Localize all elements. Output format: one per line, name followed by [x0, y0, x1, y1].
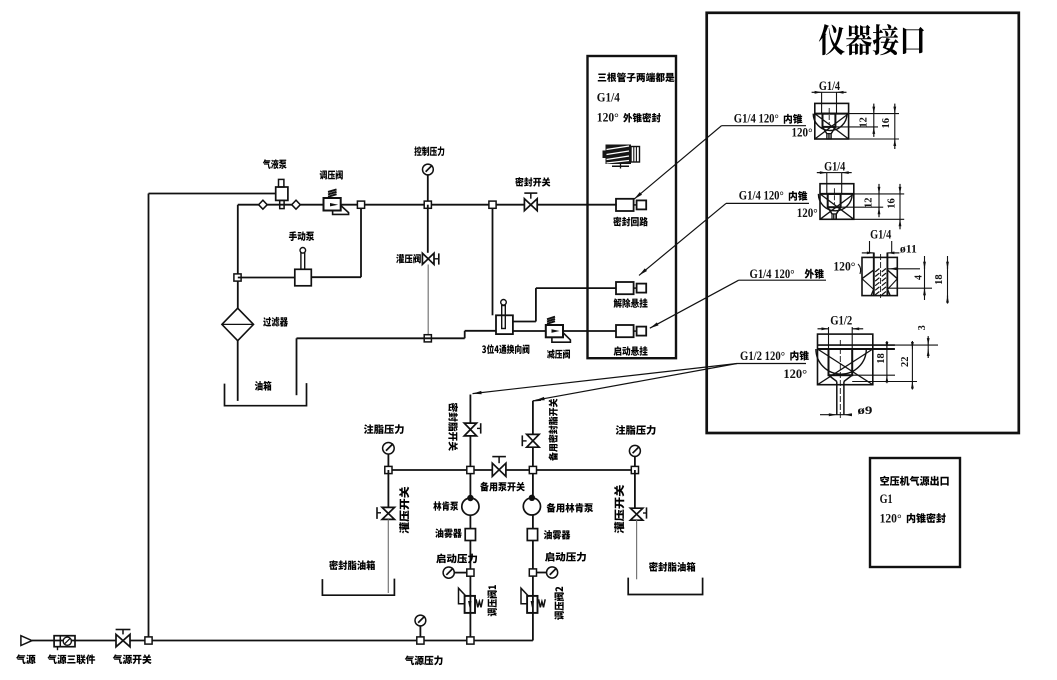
wire: gauge R stub: [537, 572, 547, 574]
label 密封脂开关 (vertical): [448, 403, 458, 451]
label 备用密封脂开关 (vertical): [548, 399, 557, 461]
valve 气源开关: [116, 634, 130, 646]
detail drawing 2: G1/4 female cone section: [820, 184, 854, 220]
bar 密封脂开关: [480, 423, 482, 433]
stem 灌压开关 R: [643, 512, 647, 514]
label 气源三联件: [47, 654, 95, 664]
wire: valve output B: [513, 330, 546, 332]
svg-text:120°: 120°: [783, 367, 807, 381]
bar 气源开关: [116, 629, 131, 631]
label 调压阀1 (vertical): [487, 585, 497, 616]
valve 调压阀1 (air regulator 1): [465, 596, 475, 613]
node line1 header: [467, 466, 474, 473]
plate top: [818, 344, 895, 346]
box: 三根管子 note frame: [588, 56, 677, 358]
centerline drawing 4: [839, 340, 841, 418]
wire: supply line to air-liquid pump: [149, 193, 277, 195]
seal switch handle bar: [524, 192, 537, 194]
bar 备用密封脂开关: [521, 435, 523, 446]
FRL unit 气源三联件: [54, 636, 75, 647]
node: line1 bottom tee: [467, 637, 474, 644]
connector 密封回路 port: [616, 199, 634, 211]
svg-text:120°: 120°: [880, 510, 902, 525]
label 气源压力: [405, 655, 443, 665]
wire: down to relief valve: [427, 205, 429, 253]
svg-text:G1/4 120°: G1/4 120°: [739, 189, 784, 203]
valve 备用泵开关: [492, 463, 506, 476]
relief valve stem: [434, 258, 439, 260]
plug wall right: [886, 253, 888, 296]
detail drawing 1: G1/4 female cone section: [815, 103, 849, 139]
label 手动泵: [289, 231, 314, 241]
pump 气液泵 (air-liquid pump): [276, 187, 288, 200]
tank 密封脂油箱 (left): [322, 579, 394, 596]
svg-text:ø9: ø9: [857, 403, 872, 417]
underline 1: [722, 125, 807, 127]
thread hatch in plug: [875, 269, 879, 272]
text 外锥密封: [623, 113, 661, 123]
underline 2: [726, 202, 809, 204]
node: pilot tee on main line: [489, 201, 496, 208]
gauge 启动压力 L: [443, 567, 454, 578]
wire: up to main line: [360, 205, 362, 278]
pump 备用林肯泵: [523, 498, 540, 515]
wire: up: [535, 288, 537, 321]
label 林肯泵: [433, 501, 458, 511]
wire: stem to control pressure gauge: [427, 175, 429, 205]
label 密封脂油箱 L: [329, 560, 375, 570]
wire: suction line: [297, 337, 465, 339]
svg-text:12: 12: [864, 197, 875, 208]
leader to 密封回路: [634, 126, 722, 200]
valve 备用密封脂开关: [527, 434, 539, 447]
underline 3: [739, 279, 826, 281]
svg-text:22: 22: [900, 357, 911, 368]
stem 备用泵开关: [498, 457, 500, 464]
svg-text:G1: G1: [880, 491, 893, 506]
detail drawing 4: G1/2 female cone section: [818, 334, 873, 385]
text 内锥密封: [907, 513, 946, 523]
svg-text:120°: 120°: [597, 109, 619, 124]
wire: left main vertical air line: [148, 194, 150, 641]
wire: to release-suspension port: [536, 287, 616, 289]
label 密封回路: [613, 217, 648, 227]
gauge 启动压力 R: [547, 567, 558, 578]
label 灌压开关 L (vertical): [399, 487, 409, 534]
label 气液泵: [263, 159, 287, 169]
X diag 4b: [818, 349, 873, 385]
node: air riser tee: [145, 637, 152, 644]
svg-text:G1/2: G1/2: [830, 314, 852, 328]
oiler 油雾器 (right): [527, 529, 537, 541]
stub hole right: [843, 382, 845, 415]
connector 解除悬挂 port: [616, 282, 634, 294]
node 启动压力 R: [529, 569, 536, 576]
wire: left gauge stem: [387, 454, 389, 466]
stem 密封脂开关: [477, 427, 481, 429]
title 仪器接口: [819, 24, 924, 55]
label 灌压阀: [396, 254, 421, 263]
check valve diamond 2: [292, 200, 301, 209]
label 调压阀2 (vertical): [554, 587, 564, 620]
label 调压阀: [320, 170, 343, 179]
svg-text:12: 12: [859, 117, 870, 128]
svg-text:120°: 120°: [792, 126, 813, 140]
label 油雾器 R: [544, 530, 571, 540]
label 备用林肯泵: [546, 503, 593, 513]
underline 4: [737, 363, 806, 365]
svg-text:G1/4: G1/4: [597, 90, 620, 105]
filter midline: [223, 323, 254, 325]
label 解除悬挂: [614, 298, 648, 308]
svg-text:G1/4: G1/4: [870, 228, 892, 242]
valve 灌压开关 (left): [382, 507, 394, 519]
wire: branch down to manual pump / filter: [237, 205, 239, 309]
wire: pump outlet line: [238, 204, 324, 206]
connector 启动悬挂 port: [616, 325, 634, 337]
drain flag of 减压阀: [552, 333, 571, 342]
wire: main control line to seal circuit: [341, 204, 617, 206]
wire: bottom air supply line: [32, 640, 533, 642]
wire: suction dip into tank: [296, 338, 298, 395]
label 控制压力: [414, 146, 444, 156]
gauge 控制压力: [423, 164, 434, 175]
wire: gauge L stub: [454, 572, 467, 574]
wire: into left grease tank (thin): [387, 519, 389, 593]
node line2 header: [529, 466, 536, 473]
label 灌压开关 R (vertical): [614, 485, 624, 534]
pump 手动泵 (hand pump): [295, 269, 312, 286]
wire: pilot line down to directional valve: [492, 205, 494, 316]
label 密封脂油箱 R: [649, 562, 695, 572]
detail drawing 3: G1/4 male cone section: [862, 257, 897, 295]
label 注脂压力 (right): [616, 425, 656, 435]
wire: suction step up: [464, 331, 466, 339]
gauge 注脂压力 (left): [383, 443, 395, 455]
svg-text:120°: 120°: [833, 260, 855, 274]
inner hex/nut: [829, 349, 853, 375]
wire: air gauge stem: [419, 626, 421, 637]
bar 灌压开关 L: [376, 507, 378, 519]
gauge 注脂压力 (right): [629, 445, 640, 456]
spring of 减压阀: [547, 317, 555, 324]
gauge 气源压力: [415, 615, 426, 626]
wire: filter suction into oil tank: [237, 341, 239, 401]
valve 3位4通换向阀 (3-pos 4-way directional valve): [496, 315, 513, 334]
svg-text:G1/4: G1/4: [824, 159, 846, 173]
leader to 解除悬挂: [639, 203, 726, 275]
label 油箱: [255, 381, 272, 391]
text 三根管子两端都是: [598, 72, 675, 82]
wire: to manual pump: [238, 277, 295, 279]
X diag 4a: [818, 349, 873, 385]
stem 灌压开关 L: [377, 512, 381, 514]
leader to seal grease line 1: [473, 364, 738, 394]
valve 密封开关 (seal switch): [524, 199, 537, 211]
svg-text:4: 4: [914, 275, 925, 280]
relief valve end bar: [438, 253, 440, 264]
valve 减压阀 (pressure reducing valve): [546, 325, 563, 337]
cone V of drawing 4: [829, 375, 853, 381]
svg-text:G1/4 120°: G1/4 120°: [750, 267, 795, 281]
label 油雾器 L: [435, 528, 462, 538]
box: 空压机气源出口 note: [870, 458, 960, 567]
label 减压阀: [547, 349, 570, 358]
wire: suction into directional valve: [465, 330, 496, 332]
wire: into right grease tank (thin): [636, 520, 638, 579]
tank 油箱: [225, 383, 307, 406]
check valve diamond 1: [259, 200, 268, 209]
stub hole left: [836, 382, 838, 415]
node left header: [385, 466, 392, 473]
seal switch stem: [530, 193, 532, 199]
svg-text:G1/2 120°: G1/2 120°: [740, 349, 785, 363]
filter 过滤器: [222, 308, 254, 341]
bar 灌压开关 R: [646, 507, 648, 518]
arrow inside 调压阀: [330, 203, 338, 206]
wire: grease line 2 (备用 column): [532, 401, 534, 641]
svg-text:18: 18: [934, 274, 945, 285]
pump 林肯泵: [462, 498, 479, 515]
node on suction line: [424, 335, 431, 342]
wire: left branch down: [387, 470, 389, 507]
air source symbol 气源: [21, 636, 32, 646]
valve 调压阀2 (air regulator 2): [527, 596, 537, 613]
wire: right branch down: [634, 470, 636, 508]
stem 备用密封脂开关: [522, 440, 526, 442]
label 密封开关: [515, 177, 550, 187]
wire: right gauge stem: [634, 456, 636, 466]
drain flag of 调压阀: [333, 206, 349, 215]
node on main line above hand pump: [357, 201, 364, 208]
svg-text:120°: 120°: [797, 206, 818, 220]
valve 密封脂开关: [464, 423, 476, 436]
plate bottom: [818, 348, 895, 350]
icon: hose fitting (hatched): [603, 145, 640, 169]
wire: valve output A: [513, 321, 536, 323]
valve 灌压开关 (right): [630, 508, 642, 520]
wire: relief drain (thin): [427, 265, 429, 339]
wire: grease distribution header: [388, 469, 635, 471]
wire: manual pump outlet: [311, 276, 361, 278]
wire: jog at line2 top: [533, 399, 541, 402]
label 注脂压力 (left): [364, 424, 404, 434]
svg-text:16: 16: [881, 118, 892, 129]
wire: to start-suspension port: [563, 330, 616, 332]
valve 灌压阀 (relief valve): [422, 253, 434, 264]
cone V of drawing 3: [862, 270, 897, 279]
svg-text:G1/4: G1/4: [819, 79, 841, 93]
wire: grease line 1 (林肯泵 column): [469, 395, 471, 641]
leader to seal grease line 2: [536, 364, 738, 401]
label 过滤器: [263, 317, 288, 327]
tank 密封脂油箱 (right): [628, 578, 702, 595]
svg-text:ø11: ø11: [900, 242, 917, 256]
svg-text:16: 16: [886, 198, 897, 209]
node: manual-pump tee: [234, 274, 241, 281]
stem 气源开关: [122, 630, 124, 635]
text 空压机气源出口: [880, 476, 949, 486]
leader to 启动悬挂: [650, 280, 739, 328]
oiler 油雾器 (left): [465, 529, 475, 541]
valve 调压阀 (pressure regulating valve): [324, 198, 341, 211]
label 3位4通换向阀: [482, 344, 529, 354]
bar 备用泵开关: [492, 456, 506, 458]
svg-text:18: 18: [876, 353, 887, 364]
big arc drawing 4: [816, 349, 866, 374]
node: air gauge tee: [417, 637, 424, 644]
panel frame 仪器接口: [707, 13, 1019, 433]
plug wall left: [873, 253, 875, 296]
label 启动悬挂: [614, 346, 648, 356]
label 启动压力 L: [436, 554, 477, 564]
spring of 调压阀: [328, 189, 337, 196]
node 启动压力 L: [467, 569, 474, 576]
node: control gauge tee: [424, 201, 431, 208]
centerline drawing 3: [880, 254, 882, 298]
label 气源开关: [113, 654, 152, 664]
label 气源: [16, 654, 36, 664]
svg-text:G1/4 120°: G1/4 120°: [734, 112, 779, 126]
svg-text:3: 3: [917, 325, 928, 330]
label 备用泵开关: [480, 482, 525, 492]
node right header: [631, 466, 638, 473]
label 启动压力 R: [545, 552, 586, 562]
